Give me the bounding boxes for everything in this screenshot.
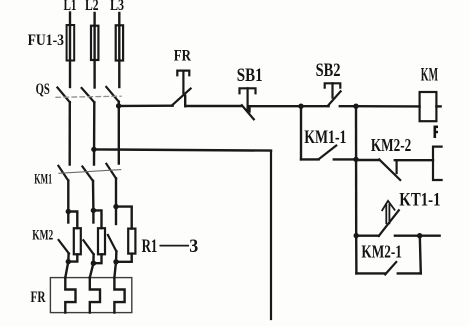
KM2 pole2 bottom wire — [92, 254, 95, 263]
svg-text:KM2-2: KM2-2 — [371, 135, 411, 155]
svg-text:KM2-1: KM2-1 — [361, 241, 402, 261]
switch QS pole 1 blade — [57, 88, 69, 103]
node C — [353, 157, 358, 162]
wire node A to SB2 — [301, 105, 329, 107]
wire bus x356 — [355, 106, 358, 235]
KM2-1 right wire — [398, 272, 421, 274]
KM2-2 right wire — [395, 159, 433, 161]
wire node E right — [420, 234, 440, 236]
KM2-2 left wire — [356, 159, 379, 161]
wire KM1 p3 down — [115, 178, 117, 206]
SB1 stem — [247, 88, 249, 111]
svg-text:KM1: KM1 — [34, 171, 52, 187]
contactor KM2 pole3: stub wire — [115, 207, 117, 224]
FR actuator bar — [177, 71, 189, 76]
node B — [353, 104, 358, 109]
switch QS pole 3 blade — [106, 87, 119, 102]
node rejoin p3 — [113, 259, 118, 264]
wire FR to SB1 — [185, 105, 242, 107]
contact KM2-1 blade — [385, 262, 396, 274]
resistor R3 bottom stub — [116, 254, 132, 262]
wire bus x356 lower — [355, 236, 358, 274]
KM1-1 left wire — [301, 158, 319, 160]
wire KM1 p1 down — [67, 181, 69, 212]
KT1-1 right wire — [395, 234, 420, 236]
QS linkage dashed — [56, 96, 121, 97]
contact KM2-2 blade — [379, 159, 400, 180]
node E — [417, 233, 422, 238]
wire p1 to FR heater — [65, 262, 68, 278]
contactor KM1 pole3 blade — [106, 164, 116, 179]
node split p3 — [113, 204, 118, 209]
wire QS2 to KM1 — [93, 102, 96, 164]
svg-text:KM1-1: KM1-1 — [304, 127, 346, 148]
contactor KM2 pole1: stub wire — [67, 212, 69, 223]
node split p2 — [91, 208, 96, 213]
resistor R3 — [128, 229, 135, 254]
svg-text:L3: L3 — [110, 0, 124, 14]
resistor R1 branch: top stub — [68, 212, 77, 229]
contactor KM1 pole2 blade — [82, 167, 93, 181]
resistor R2 bottom stub — [93, 254, 101, 263]
wire return tap — [94, 149, 271, 150]
node tap L3 — [116, 103, 121, 108]
resistor R3 branch: top stub — [116, 207, 132, 229]
fuse FU2 — [91, 26, 98, 60]
svg-text:L1: L1 — [64, 0, 77, 14]
contactor KM1 pole1 blade — [58, 166, 68, 181]
KM1 linkage line — [59, 170, 121, 174]
node D — [354, 233, 359, 238]
SB2 blade — [328, 91, 341, 106]
contact KM1-1 blade — [319, 146, 336, 159]
svg-text:KT1-1: KT1-1 — [399, 191, 440, 211]
KT1-1 arrow shaft 2 — [388, 205, 390, 224]
resistor R2 — [98, 228, 105, 254]
node L1 — [69, 13, 71, 26]
FR actuator stem — [182, 72, 184, 94]
node A — [298, 104, 303, 109]
thermal relay FR box — [50, 278, 131, 313]
svg-text:KM: KM — [421, 65, 438, 86]
SB1 right contact tick — [249, 106, 251, 111]
fuse FU1 — [67, 25, 75, 61]
KM2 pole1 bottom wire — [67, 254, 70, 262]
svg-text:SB2: SB2 — [316, 60, 341, 81]
svg-text:FR: FR — [31, 289, 47, 306]
wire SB1 to node A — [250, 105, 301, 107]
KM2-2 contact tick — [396, 160, 398, 173]
node split p1 — [66, 209, 71, 214]
resistor R2 branch: top stub — [93, 210, 101, 228]
KM2-1 left wire — [356, 272, 385, 274]
KM2 pole2 blade — [83, 240, 93, 254]
wire node A down — [300, 106, 302, 159]
KT1-1 arrow head — [382, 201, 394, 210]
svg-text:KM2: KM2 — [32, 228, 53, 244]
svg-text:SB1: SB1 — [237, 65, 263, 86]
coil KT (clipped) — [433, 147, 442, 180]
pushbutton SB2 handle bar — [325, 83, 341, 87]
partial K glyph at right edge — [434, 126, 439, 139]
wire p2 to FR heater — [90, 263, 94, 277]
KM2 pole1 blade — [59, 240, 69, 254]
FR NC contact: blade — [173, 89, 191, 105]
fuse FU3 — [116, 25, 123, 60]
svg-text:FU1-3: FU1-3 — [28, 32, 65, 49]
node tap L2 — [91, 147, 96, 152]
label R1-3 dash — [160, 245, 190, 247]
SB1 blade — [242, 105, 254, 119]
switch QS pole 2 blade — [82, 88, 95, 102]
svg-text:FR: FR — [174, 48, 192, 65]
KM1-1 right wire — [334, 158, 356, 160]
FR heater element 2 — [90, 278, 100, 313]
KT1-1 arrow shaft 1 — [385, 205, 387, 224]
wire QS3 to KM1 — [118, 102, 120, 164]
node L3 — [118, 13, 120, 26]
KT1-1 left wire — [356, 234, 379, 236]
KM2 pole3 bottom wire — [115, 251, 118, 261]
FR heater element 3 — [114, 278, 124, 313]
wire node B to coil KM — [356, 105, 420, 108]
coil KM right stub — [436, 105, 440, 107]
pushbutton SB1 handle bar — [240, 88, 256, 93]
wire L1 fuse to QS — [69, 27, 71, 87]
node L2 — [93, 13, 95, 26]
resistor R1 — [74, 228, 81, 254]
svg-text:L2: L2 — [85, 0, 99, 14]
node rejoin p1 — [66, 259, 71, 264]
wire return down — [270, 151, 272, 319]
contact KT1-1 blade — [379, 210, 399, 236]
svg-text:R1: R1 — [142, 236, 158, 257]
wire L2 fuse to QS — [93, 27, 95, 88]
resistor R1 bottom stub — [68, 254, 77, 261]
FR heater element 1 — [65, 278, 75, 313]
wire SB2 to node B — [340, 105, 356, 107]
wire KM1 p2 down — [92, 181, 95, 211]
FR contact riser — [184, 96, 186, 106]
coil KM — [420, 92, 437, 121]
wire L3 fuse to QS — [118, 27, 120, 87]
KM2 pole3 blade — [108, 235, 117, 251]
wire control rung tap — [119, 104, 173, 107]
wire p3 to FR heater — [114, 262, 116, 278]
contactor KM2 pole2: stub wire — [92, 210, 94, 222]
node rejoin p2 — [91, 261, 96, 266]
wire KM2-1 up to node E — [420, 236, 421, 274]
svg-text:QS: QS — [36, 81, 50, 98]
SB2 stem — [331, 83, 333, 97]
wire QS1 to KM1 — [68, 102, 71, 164]
svg-text:3: 3 — [189, 236, 198, 257]
